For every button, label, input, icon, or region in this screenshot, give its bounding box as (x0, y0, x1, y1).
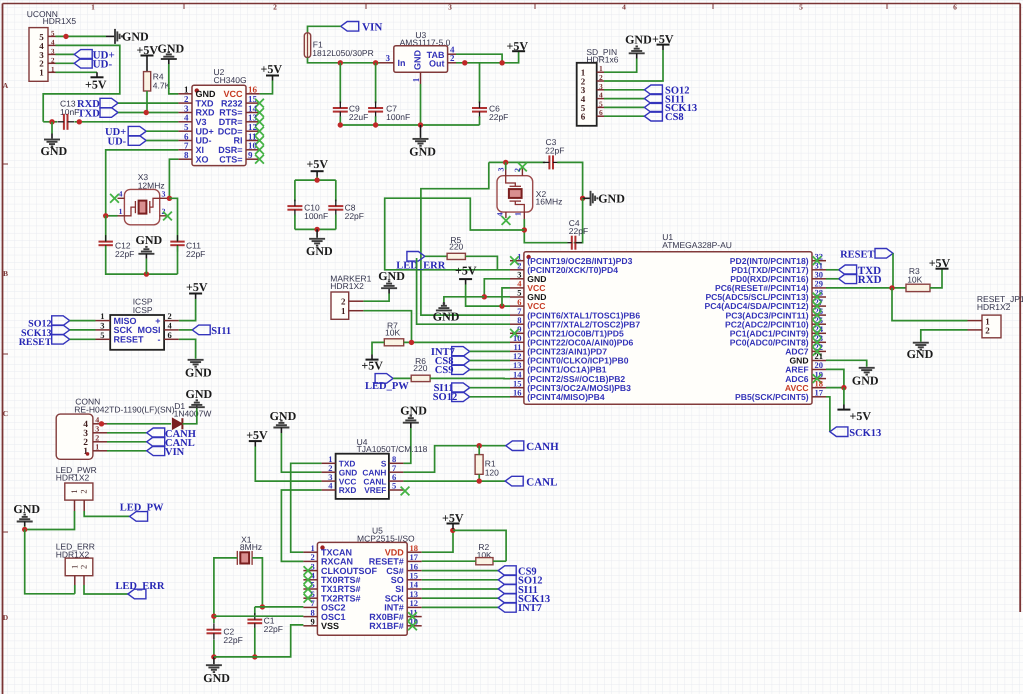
svg-text:22pF: 22pF (569, 226, 588, 236)
net flag SCK13 (U1) (830, 427, 848, 437)
U4 pin 7 CANH (389, 471, 404, 473)
wire C2 to GND rail (213, 640, 215, 657)
wire (826, 269, 839, 271)
wire C1 to GND rail (254, 628, 256, 657)
U1 pin 30 PD0(RXD/PCINT16) (812, 278, 826, 280)
U3 pin 4 TAB (448, 53, 456, 55)
no-connect (255, 155, 264, 164)
junction (841, 385, 846, 390)
ICSP pin 6 (164, 338, 179, 340)
svg-text:4: 4 (51, 38, 55, 46)
svg-text:C: C (3, 409, 8, 418)
svg-text:CS9: CS9 (435, 365, 454, 376)
U5 pin 6 TX2RTS# (303, 597, 317, 599)
junction X2 pin3 (503, 160, 508, 165)
wire U1 pin20 AREF to AVCC net (826, 369, 844, 387)
junction (338, 122, 343, 127)
X3 pin 4 (NC) (118, 197, 125, 199)
wire U3 pin1 to GND rail (420, 84, 422, 125)
ground GND (C13) (51, 122, 53, 134)
X2 pin 4 lead (NC) (505, 212, 507, 218)
U1 pin 11 (PCINT23/AIN1)PD7 (510, 350, 524, 352)
no-connect (408, 621, 417, 630)
svg-text:22pF: 22pF (115, 249, 134, 259)
svg-text:6: 6 (581, 112, 586, 122)
ICSP pin 4 (164, 329, 179, 331)
svg-text:GND: GND (433, 309, 460, 323)
U5 pin 3 CLKOUTSOF (303, 570, 317, 572)
no-connect (304, 566, 313, 575)
capacitor C7 (375, 63, 377, 103)
junction (49, 119, 54, 124)
wire TAB to Out net (456, 54, 502, 63)
X3 pin 1 (118, 215, 125, 217)
U1 pin 1 (PCINT19/OC2B/INT1)PD3 (510, 260, 524, 262)
net flag SCK13 (498, 593, 516, 603)
svg-text:VREF: VREF (364, 485, 386, 495)
svg-text:In: In (398, 58, 406, 68)
wire GND rail to U5 pin9 (214, 625, 304, 657)
svg-text:10K: 10K (385, 328, 400, 338)
svg-text:100nF: 100nF (386, 112, 410, 122)
ICSP pin 1 MISO (96, 320, 111, 322)
svg-text:8MHz: 8MHz (240, 542, 262, 552)
svg-text:22pF: 22pF (223, 635, 242, 645)
no-connect (255, 99, 264, 108)
wire X3 pin1 to C12 (105, 216, 107, 241)
power +5V (U5) (452, 524, 454, 530)
junction (580, 196, 585, 201)
ground GND (D1) (196, 404, 198, 409)
wire +5V to ICSP pin2 (179, 299, 196, 321)
no-connect U4 VREF (401, 487, 410, 496)
junction X3 pin1 / XI / C12 (103, 213, 108, 218)
svg-text:9: 9 (311, 617, 315, 627)
U2 pin 10 DSR= (246, 149, 260, 151)
svg-text:5: 5 (51, 29, 55, 37)
wire U1 pin17 to SCK13 (826, 397, 830, 432)
U1 pin 3 GND (510, 278, 524, 280)
wire R7 right to U1 pin10 (404, 341, 510, 343)
svg-text:GND: GND (852, 374, 879, 388)
SD_PIN pin 1 (597, 71, 604, 73)
wire U5 to SCK13 (422, 597, 499, 599)
wire F1 to U3 In (308, 58, 380, 63)
resistor R1 120 (475, 455, 483, 475)
svg-text:RXD: RXD (339, 485, 357, 495)
svg-text:1: 1 (341, 306, 346, 316)
svg-text:UD-: UD- (108, 137, 127, 148)
capacitor C10 (294, 180, 296, 201)
svg-text:TXD: TXD (78, 109, 101, 120)
net flag SCK13 (644, 103, 662, 113)
svg-text:6: 6 (599, 108, 603, 117)
wire X3 pin3 to C11 (169, 198, 177, 241)
wire C4 to X2 pin1 (524, 230, 567, 243)
capacitor C9 (339, 63, 341, 103)
svg-text:GND: GND (413, 50, 423, 71)
svg-text:RESET: RESET (19, 337, 52, 348)
wire SD_PIN to SO12 (604, 89, 644, 91)
svg-text:1: 1 (599, 64, 603, 73)
net flag LED_ERR (header) (128, 589, 146, 599)
no-connect (304, 585, 313, 594)
no-connect (813, 338, 822, 347)
CONN pin 2 (93, 441, 107, 443)
svg-text:XO: XO (196, 154, 209, 164)
net flag UD- (74, 59, 92, 69)
svg-text:RXD: RXD (858, 274, 882, 286)
svg-text:6: 6 (953, 3, 957, 12)
svg-text:17: 17 (815, 387, 824, 397)
net flag CANH (CONN) (147, 428, 165, 438)
wire (179, 329, 192, 331)
svg-text:22pF: 22pF (186, 249, 205, 259)
wire R1 leads (478, 446, 480, 455)
wire SD_PIN pin1 to GND (604, 59, 637, 73)
svg-text:GND: GND (122, 30, 149, 44)
ground GND (U1 pins3/5) (443, 302, 445, 306)
no-connect (255, 136, 264, 145)
wire (470, 350, 510, 352)
junction (314, 227, 319, 232)
wire OSC2 net to U5 pin7 (255, 606, 304, 608)
svg-text:+5V: +5V (307, 157, 329, 171)
svg-text:2: 2 (985, 326, 990, 336)
svg-text:1: 1 (69, 489, 79, 493)
junction (499, 303, 504, 308)
svg-text:HDR1X5: HDR1X5 (43, 16, 77, 26)
capacitor C2 (207, 630, 222, 634)
U2 pin 3 RXD (178, 112, 192, 114)
svg-text:2: 2 (79, 565, 89, 569)
U5 pin 9 VSS (303, 625, 317, 627)
wire TXD to U2 pin3 (118, 112, 178, 114)
wire U4 pin7 to CANH net (403, 446, 505, 473)
wire X2 pin1 to U1 pin2 net (385, 198, 525, 270)
wire VIN to F1 (308, 26, 341, 33)
no-connect (813, 347, 822, 356)
svg-text:VIN: VIN (362, 22, 382, 34)
svg-text:5: 5 (599, 99, 603, 108)
net flag CS9 (498, 566, 516, 576)
U1 pin 26 PC3(ADC3/PCINT11) (812, 314, 826, 316)
svg-text:120: 120 (485, 467, 499, 477)
net flag RXD (U1) (839, 274, 857, 284)
svg-text:CH340G: CH340G (214, 75, 247, 85)
U5 pin 17 RESET# (407, 560, 422, 562)
junction X3 pin3 / XO / C11 (167, 196, 172, 201)
junction (22, 527, 27, 532)
svg-text:220: 220 (413, 363, 427, 373)
wire JP1 pin2 to GND (921, 330, 968, 342)
junction R4/TXD (144, 110, 149, 115)
U4 pin 2 GND (322, 471, 336, 473)
svg-text:5: 5 (392, 481, 396, 491)
net flag CANH (506, 441, 524, 451)
X3 pin 3 (160, 197, 170, 199)
no-connect (255, 117, 264, 126)
wire GND to U2 pin1 (169, 64, 179, 94)
svg-text:2: 2 (95, 434, 99, 443)
X3 pin 2 (NC) (160, 215, 167, 217)
U5 pin 16 CS# (407, 570, 422, 572)
ground GND (C10/C8) (316, 229, 318, 237)
junction R1 bottom (477, 478, 482, 483)
no-connect (813, 374, 822, 383)
svg-text:UD-: UD- (93, 58, 113, 70)
svg-text:GND: GND (907, 347, 934, 361)
wire U2 pin7 XI to X3 (106, 150, 179, 216)
wire (826, 278, 839, 280)
wire U4 pin6 to CANL net (403, 480, 505, 482)
wire SD_PIN to CS8 (604, 115, 644, 117)
ICSP pin 2 (164, 320, 179, 322)
wire LED_ERR pin2 to LED_ERR flag (84, 585, 128, 594)
svg-text:CANH: CANH (526, 441, 559, 453)
junction (77, 119, 82, 124)
wire X1 right to C1 branch (252, 558, 262, 607)
U1 pin 12 (PCINT0/CLKO/ICP1)PB0 (510, 360, 524, 362)
svg-text:3: 3 (497, 168, 506, 172)
svg-text:100nF: 100nF (304, 211, 328, 221)
junction C9 (338, 60, 343, 65)
junction R1 top (477, 443, 482, 448)
U1 pin 29 PC6(RESET#/PCINT14) (812, 287, 826, 289)
no-connect (255, 145, 264, 154)
svg-text:5: 5 (799, 3, 803, 12)
svg-text:1N4007W: 1N4007W (174, 409, 212, 419)
svg-text:+5V: +5V (850, 409, 872, 423)
LED_ERR pin2 lead (83, 576, 85, 585)
svg-text:22uF: 22uF (349, 112, 368, 122)
svg-text:GND: GND (306, 244, 333, 258)
U2 pin 6 UD- (178, 140, 192, 142)
U1 pin 32 PD2(INT0/PCINT18) (812, 260, 826, 262)
wire U5 to SO12 (422, 579, 499, 581)
U5 pin 2 RXCAN (303, 560, 317, 562)
svg-text:GND: GND (185, 366, 212, 380)
U2 pin 2 TXD (178, 102, 192, 104)
X2 pin 1 lead (523, 212, 525, 219)
U4 pin 5 VREF (389, 489, 404, 491)
svg-text:CANL: CANL (526, 476, 557, 488)
wire (470, 387, 510, 389)
wire CONN pin3 to CANH (107, 432, 147, 434)
junction (418, 122, 423, 127)
wire SD_PIN pin2 to +5V (604, 50, 663, 81)
wire OSC1 net to U5 pin8 (214, 615, 304, 617)
power +5V (UCONN pin1, inverted) (96, 72, 98, 77)
wire SD_PIN to SCK13 (604, 106, 644, 108)
U5 pin 1 TXCAN (303, 551, 317, 553)
junction (462, 60, 467, 65)
wire +5V branch to R2 (453, 530, 506, 561)
wire C11 to rail (177, 246, 179, 274)
U5 pin 8 OSC1 (303, 616, 317, 618)
wire U1 pin29 to R3 (826, 287, 906, 289)
svg-text:1: 1 (95, 443, 99, 452)
wire UCONN pin2 to UD- (56, 62, 75, 64)
svg-text:22pF: 22pF (345, 211, 364, 221)
svg-text:GND: GND (400, 404, 427, 418)
svg-text:1: 1 (514, 212, 523, 216)
wire XTAL1 net top (489, 161, 545, 163)
junction (450, 528, 455, 533)
svg-text:CS8: CS8 (665, 112, 684, 123)
U2 pin 13 DTR= (246, 121, 260, 123)
U1 pin 20 AREF (812, 369, 826, 371)
wire D1 to GND (182, 409, 196, 424)
svg-text:22pF: 22pF (489, 112, 508, 122)
svg-text:GND: GND (625, 33, 652, 47)
U3 pin 1 (bottom) (420, 72, 422, 84)
wire GND drop to C4 (574, 198, 583, 242)
U5 pin 5 TX1RTS# (303, 588, 317, 590)
no-connect (304, 575, 313, 584)
U4 pin 6 CANL (389, 480, 404, 482)
svg-text:3: 3 (599, 82, 603, 91)
svg-text:HDR1X2: HDR1X2 (330, 281, 364, 291)
ground GND (JP1) (913, 343, 929, 350)
svg-text:+5V: +5V (361, 359, 383, 373)
junction (252, 654, 257, 659)
MARKER1 pin1 lead (349, 310, 364, 312)
no-connect (510, 256, 519, 265)
svg-text:220: 220 (449, 242, 463, 252)
U4 pin 4 RXD (322, 489, 336, 491)
U5 pin 11 RX0BF# (407, 616, 422, 618)
U1 pin 8 (PCINT7/XTAL2/TOSC2)PB7 (510, 323, 524, 325)
svg-text:1812L050/30PR: 1812L050/30PR (312, 48, 373, 58)
svg-text:1: 1 (411, 77, 421, 82)
U4 pin 1 TXD (322, 462, 336, 464)
wire UCONN pin1 to +5V (56, 71, 98, 73)
wire CONN pin2 to CANL (107, 441, 147, 443)
wire RESET to U1 pin29 (892, 253, 894, 288)
U1 pin 4 VCC (510, 287, 524, 289)
SD_PIN pin 2 (597, 80, 604, 82)
svg-text:SI11: SI11 (211, 326, 231, 337)
no-connect (408, 612, 417, 621)
svg-text:HDR1X2: HDR1X2 (56, 472, 90, 482)
wire LED_ERR to R5 (425, 255, 447, 257)
svg-text:HDR1X2: HDR1X2 (977, 302, 1011, 312)
wire UD- to U2 pin6 (146, 140, 178, 142)
wire GND to U4 pin8 (403, 428, 410, 463)
U2 pin 7 XI (178, 149, 192, 151)
wire +5V to U1 pins4/6 (466, 285, 510, 307)
U3 pin 3 In (380, 62, 394, 64)
svg-text:+5V: +5V (507, 39, 529, 53)
LED_PWR pin2 lead (83, 500, 85, 511)
U2 pin 5 UD+ (178, 130, 192, 132)
svg-text:RESET: RESET (114, 335, 145, 345)
svg-text:4: 4 (119, 190, 123, 199)
svg-text:2: 2 (51, 56, 55, 64)
capacitor C6 (479, 63, 481, 103)
junction (211, 614, 216, 619)
svg-text:16: 16 (513, 387, 522, 397)
net flag TXD (U1) (839, 265, 857, 275)
CONN pin 3 (93, 432, 107, 434)
U1 pin 15 (PCINT3/OC2A/MOSI)PB3 (510, 387, 524, 389)
ground GND (C2) (213, 657, 215, 664)
junction (260, 604, 265, 609)
ground GND (U1 pin21) (859, 368, 875, 375)
U4 pin 8 S (389, 462, 404, 464)
wire RESET net to JP1 pin1 (892, 288, 968, 321)
svg-text:4: 4 (95, 416, 99, 425)
ground GND (MARKER1) (388, 289, 390, 294)
U1 pin 7 (PCINT6/XTAL1/TOSC1)PB6 (510, 314, 524, 316)
wire LED_PWR pin2 to LED_PW (84, 511, 129, 516)
wire (470, 360, 510, 362)
no-connect (813, 302, 822, 311)
net flag SO12 (644, 85, 662, 95)
U5 pin 15 SO (407, 579, 422, 581)
wire LED_PW to R6 (393, 377, 411, 379)
junction (409, 340, 414, 345)
svg-text:D: D (3, 613, 9, 622)
wire U5 VDD to +5V (422, 529, 453, 552)
junction (499, 60, 504, 65)
no-connect (813, 311, 822, 320)
svg-text:4: 4 (599, 91, 603, 100)
no-connect (813, 293, 822, 302)
junction (99, 421, 104, 426)
net flag SI11 (644, 94, 662, 104)
net flag VIN (CONN) (147, 446, 165, 456)
ground GND (ICSP) (188, 360, 204, 367)
svg-text:2: 2 (341, 296, 346, 306)
wire RXD to U2 pin2 (118, 102, 178, 104)
wire AVCC to +5V (843, 388, 845, 405)
svg-text:GND: GND (186, 387, 213, 401)
SD_PIN pin 5 (597, 106, 604, 108)
svg-text:2: 2 (79, 489, 89, 493)
junction (144, 271, 149, 276)
net flag SO12 (498, 575, 516, 585)
svg-text:3: 3 (162, 190, 166, 199)
wire U4 pin1 to U5 pin1 (291, 463, 322, 552)
U2 pin 11 RI (246, 140, 260, 142)
svg-text:LED_PW: LED_PW (365, 381, 409, 392)
svg-text:ATMEGA328P-AU: ATMEGA328P-AU (662, 240, 732, 250)
U1 pin 21 GND (812, 360, 826, 362)
wire C13 right to U2 pin4 (74, 121, 178, 123)
net flag VIN (top) (341, 22, 359, 32)
U5 pin 7 OSC2 (303, 606, 317, 608)
svg-text:GND: GND (409, 144, 436, 158)
net flag CANL (CONN) (147, 437, 165, 447)
U1 pin 18 AVCC (812, 387, 826, 389)
SD_PIN pin 4 (597, 98, 604, 100)
U1 pin 25 PC2(ADC2/PCINT10) (812, 323, 826, 325)
U2 pin 16 VCC (246, 93, 260, 95)
U2 pin 14 RTS= (246, 112, 260, 114)
junction (314, 177, 319, 182)
U2 pin 9 CTS= (246, 158, 260, 160)
junction (211, 654, 216, 659)
svg-text:22pF: 22pF (545, 146, 564, 156)
svg-text:+5V: +5V (186, 280, 208, 294)
wire +5V to cap rail (316, 177, 318, 181)
svg-text:+5V: +5V (246, 428, 268, 442)
wire VCC pin4 branch (502, 288, 510, 306)
svg-text:1: 1 (51, 65, 55, 73)
ICSP pin 5 RESET (96, 338, 111, 340)
